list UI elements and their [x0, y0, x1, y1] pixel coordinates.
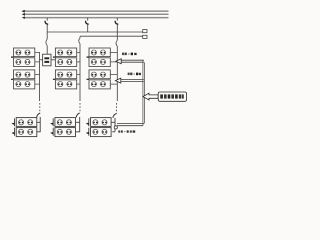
fan unit M-B42: [67, 82, 72, 87]
fan group A row boxes: [14, 48, 35, 89]
fan unit M-E21: [57, 129, 62, 134]
bottom group D stubs: [37, 122, 40, 132]
fan unit M-D21: [19, 129, 24, 134]
fan unit M-E22: [66, 129, 71, 134]
bottom group F riser: [114, 118, 116, 126]
fan unit M-E11: [57, 120, 62, 125]
fan unit M-B41: [58, 82, 63, 87]
wire right bus upper: [116, 46, 118, 101]
fan unit M-A12: [25, 50, 30, 55]
bottom group E riser hook: [76, 113, 79, 117]
wire right bus dashed: [115, 103, 117, 114]
wire drop1 to E box: [46, 46, 48, 55]
fan unit M-F12: [102, 120, 107, 125]
bottom group D riser hook: [37, 113, 40, 117]
fan group B left tabs: [53, 57, 56, 79]
fan group A stubs to bus: [35, 53, 40, 85]
fan unit M-A22: [25, 59, 30, 64]
fan unit M-B12: [67, 50, 72, 55]
fan unit M-A11: [16, 50, 21, 55]
fan unit M-C42: [100, 82, 105, 87]
bottom group E riser: [79, 117, 81, 132]
label bottom feeder: [118, 130, 135, 132]
bottom group D left arrows: [11, 123, 14, 125]
wire tie line B: [80, 35, 143, 37]
fan unit M-C31: [91, 72, 96, 77]
wire mid bus: [79, 44, 81, 101]
wire drop1 to tie A: [46, 24, 48, 39]
fan unit M-D11: [19, 120, 24, 125]
fan unit M-F11: [93, 120, 98, 125]
fan unit M-A41: [16, 82, 21, 87]
fan group B row boxes: [55, 48, 76, 89]
fan unit M-B32: [67, 72, 72, 77]
fan unit M-B31: [58, 72, 63, 77]
fan unit M-A31: [16, 72, 21, 77]
fan unit M-B11: [58, 50, 63, 55]
feeder bottom lines: [117, 123, 144, 125]
fan group B stubs to bus: [77, 53, 80, 85]
fan unit M-A32: [25, 72, 30, 77]
fan unit M-F22: [102, 129, 107, 134]
fan group C stubs to bus: [110, 53, 117, 85]
fan unit M-A42: [25, 82, 30, 87]
feeder riser vertical: [143, 60, 145, 126]
feeder tap 1 lines: [121, 60, 144, 62]
label box text: [160, 94, 184, 98]
breaker tick drop3: [115, 21, 118, 24]
fan unit M-C12: [100, 50, 105, 55]
panel E box: [43, 54, 51, 66]
panel E bar2: [44, 61, 49, 63]
wire mid bus dashed: [79, 103, 81, 113]
connector square bottom: [143, 35, 147, 38]
bottom group F left brackets: [88, 118, 90, 135]
wire E box right: [51, 59, 55, 61]
feeder tap 2 lines: [120, 80, 144, 82]
bus line L1: [23, 10, 169, 12]
label box: [158, 92, 186, 101]
label tap2: [128, 73, 141, 76]
fan unit M-E12: [66, 120, 71, 125]
bottom group E stubs: [76, 122, 80, 132]
wire drop3 through ties: [116, 24, 118, 40]
breaker tick drop1: [45, 21, 48, 24]
bus line L2: [23, 14, 169, 16]
connector square top: [143, 30, 147, 33]
fan unit M-C22: [100, 59, 105, 64]
wire left bus dashed: [39, 103, 41, 113]
feeder tap 1 arrow: [116, 59, 121, 64]
arrow bus L1 left: [21, 10, 24, 13]
bottom group D row boxes: [16, 118, 37, 127]
label tap1: [122, 53, 137, 56]
fan unit M-A21: [16, 59, 21, 64]
arrow bus L3 left: [22, 16, 25, 19]
fan unit M-D22: [28, 129, 33, 134]
block arrow to label box: [143, 93, 158, 100]
wire drop3 upper segment: [116, 18, 118, 21]
breaker arc mid riser: [79, 36, 80, 43]
fan unit circles upper groups: [16, 50, 107, 134]
bottom group E left brackets: [52, 118, 54, 135]
fan unit M-D12: [28, 120, 33, 125]
wire drop2 upper segment: [87, 18, 89, 21]
wire E box left: [40, 59, 43, 61]
fan unit M-C32: [100, 72, 105, 77]
bottom group F riser hook: [113, 114, 116, 119]
bottom group F row boxes: [91, 118, 112, 127]
fan group C row boxes: [89, 48, 110, 89]
fan unit M-B21: [58, 59, 63, 64]
bottom group F stubs: [112, 122, 116, 132]
fan unit M-B22: [67, 59, 72, 64]
fan group C left tabs: [87, 57, 90, 79]
bottom group E left arrows: [50, 123, 53, 125]
panel E bar1: [44, 57, 49, 59]
bottom group D riser: [39, 117, 41, 132]
breaker arc drop3 lower: [116, 40, 117, 46]
fan unit M-C21: [91, 59, 96, 64]
bus line L3: [23, 17, 169, 19]
feeder tap 2 arrow: [115, 78, 120, 83]
breaker tick drop2: [86, 21, 89, 24]
wire tie line A: [47, 31, 143, 33]
junction circle group F: [114, 126, 117, 129]
breaker arc drop1 lower: [46, 39, 47, 46]
wire drop1 upper segment: [46, 18, 48, 21]
wire left bus: [39, 52, 41, 101]
arrow bus L2 left: [22, 13, 25, 16]
fan group A left tabs: [11, 57, 14, 79]
fan unit M-C41: [91, 82, 96, 87]
bottom group E row boxes: [55, 118, 76, 127]
fan unit M-C11: [91, 50, 96, 55]
fan unit M-F21: [93, 129, 98, 134]
bottom group D left brackets: [14, 118, 16, 135]
wire drop2 to tie A: [87, 24, 89, 32]
bottom group F left arrows: [86, 123, 89, 125]
